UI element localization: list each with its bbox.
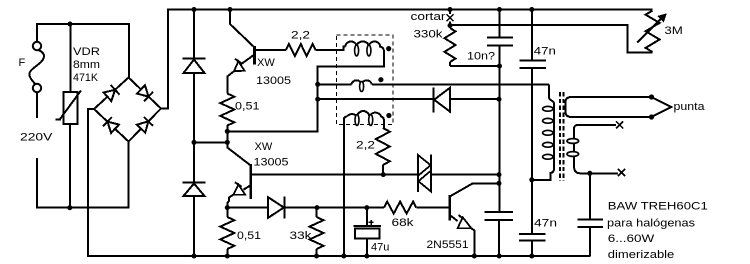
capacitor 47n upper: [531, 10, 533, 60]
wire D7 to 33k: [285, 207, 318, 209]
svg-text:0,51: 0,51: [235, 101, 260, 113]
junction Q2emitter-wire: [225, 205, 230, 210]
junction D8-node: [497, 97, 502, 102]
diode D6: [183, 182, 206, 184]
wire bridge plus: [161, 10, 169, 109]
svg-text:F: F: [19, 57, 26, 69]
terminal x1: [616, 121, 623, 128]
diode D5: [183, 58, 206, 60]
diode bridge D2: [137, 85, 149, 96]
capacitor C-499: [485, 211, 513, 213]
junction 47u-rail: [364, 254, 369, 259]
wire W1 return: [318, 51, 384, 132]
svg-text:330k: 330k: [414, 28, 444, 40]
winding W2: [351, 80, 371, 84]
svg-text:33k: 33k: [290, 230, 313, 242]
diode D8: [433, 88, 435, 113]
svg-text:47n: 47n: [534, 45, 556, 57]
T2 secondary hairpin to punta: [566, 97, 652, 117]
junction W3-rail: [341, 254, 346, 259]
diode bridge D3: [108, 122, 120, 133]
junction diac-node: [497, 172, 502, 177]
junction 47n1-rail: [529, 7, 534, 12]
junction AC1-VDR: [68, 22, 73, 27]
resistor 2,2 lower: [383, 121, 385, 128]
wire Q2 collector: [227, 148, 250, 166]
resistor 68k: [367, 207, 384, 209]
junction sec-cap: [587, 171, 592, 176]
junction midpoint-1: [225, 129, 230, 134]
T2 secondary tap wire: [574, 125, 616, 129]
junction cortar-rail: [448, 7, 453, 12]
wire cortar stub: [449, 10, 451, 15]
T2 secondary winding: [573, 129, 575, 166]
svg-text:BAW TREH60C1: BAW TREH60C1: [608, 200, 708, 212]
wire string-to-midpoint: [193, 141, 228, 143]
svg-text:13005: 13005: [254, 157, 289, 169]
varistor VDR: [70, 25, 72, 92]
wire W2 to T2 primary: [372, 83, 549, 85]
wire Q3 collector: [450, 183, 499, 196]
wire 220V return: [37, 158, 129, 208]
winding W1: [345, 41, 384, 52]
junction C499-rail: [497, 254, 502, 259]
wire 0,51 to midpoint: [226, 125, 228, 132]
diode D7: [268, 197, 284, 218]
junction 330k-10n: [497, 64, 502, 69]
bridge arm top-left: [94, 78, 129, 110]
junction 2,2-diac wire: [381, 172, 386, 177]
wire bridge bottom lead: [128, 141, 130, 209]
junction Q1 collector rail: [228, 7, 233, 12]
svg-text:13005: 13005: [256, 75, 291, 87]
junction 0,51-rail: [225, 254, 230, 259]
T2 primary winding: [553, 104, 555, 168]
svg-text:0,51: 0,51: [237, 230, 261, 242]
resistor 0,51 lower: [220, 217, 234, 249]
junction bus tap: [315, 97, 320, 102]
svg-text:2,2: 2,2: [356, 140, 375, 152]
wire bridge minus: [88, 109, 94, 256]
svg-text:8mm: 8mm: [73, 59, 100, 71]
svg-text:XW: XW: [257, 57, 275, 69]
svg-text:XW: XW: [255, 141, 273, 153]
wire node bus to D8: [318, 98, 434, 100]
T2 primary bottom lead: [532, 168, 554, 180]
potentiometer 3M: [646, 11, 660, 53]
junction W2 tap: [315, 82, 320, 87]
transistor Q2 body: [249, 164, 252, 199]
wire emitter node to D7: [227, 207, 267, 209]
wire diode-string: [193, 10, 195, 257]
wire Q1 collector: [230, 10, 255, 48]
junction string-midtap: [192, 140, 197, 145]
junction 33k top: [315, 205, 320, 210]
wire 2,2 to winding W1: [316, 47, 346, 51]
transistor Q1 emitter with diode: [241, 55, 255, 65]
svg-text:68k: 68k: [392, 217, 415, 229]
transistor Q1 body: [253, 46, 256, 65]
svg-text:471K: 471K: [73, 72, 99, 84]
capacitor 47n lower: [531, 180, 533, 233]
junction string-toprail: [192, 7, 197, 12]
wire DC+ top rail: [167, 9, 653, 11]
transistor Q3 body: [448, 195, 451, 221]
winding W3 left lead: [344, 117, 347, 257]
transformer T1 dashed box: [337, 35, 394, 125]
svg-text:punta: punta: [674, 101, 706, 113]
junction Q3C-node: [497, 181, 502, 186]
wire AC1 top-left: [36, 23, 130, 25]
fuse F: [36, 23, 38, 42]
diac DB3: [417, 155, 419, 193]
junction VDR-return: [67, 205, 72, 210]
terminal x2: [618, 169, 625, 176]
svg-text:VDR: VDR: [73, 46, 100, 58]
svg-text:para halógenas: para halógenas: [607, 218, 696, 230]
svg-text:220V: 220V: [20, 132, 53, 144]
wire DC- bottom rail: [87, 255, 590, 257]
resistor 2,2 upper: [286, 44, 316, 56]
resistor 33k: [310, 217, 324, 249]
svg-text:47n: 47n: [534, 218, 557, 230]
junction cortar-node: [448, 23, 453, 28]
junction midpoint-2: [225, 140, 230, 145]
transistor Q2 emitter with diode: [244, 185, 251, 190]
wire bridge top lead: [128, 23, 130, 78]
svg-text:cortar: cortar: [411, 11, 446, 23]
cut mark cortar: [447, 14, 454, 21]
diode bridge D1: [104, 90, 116, 101]
T2 secondary bottom lead: [574, 166, 618, 173]
winding W2 lead: [318, 83, 352, 85]
svg-text:2,2: 2,2: [291, 29, 310, 41]
wire midpoint drop: [226, 131, 228, 148]
wire Q2 base: [251, 174, 384, 176]
diode bridge D4: [137, 121, 148, 132]
junction punta top: [649, 94, 654, 99]
wire 2,2 to diac: [383, 174, 417, 176]
junction Q3E-rail: [472, 254, 477, 259]
junction 10n-rail: [497, 7, 502, 12]
bridge arm top-right: [129, 78, 162, 109]
polarity dot W1: [386, 46, 391, 51]
wire midpoint bus: [226, 130, 318, 132]
wire node 499 mid: [499, 66, 501, 211]
capacitor 47u electrolytic: [366, 208, 368, 225]
wire 330k to node: [450, 65, 500, 67]
junction 47n2-rail: [529, 254, 534, 259]
junction string-bottomrail: [192, 254, 197, 259]
svg-text:10n?: 10n?: [467, 51, 495, 63]
svg-text:3M: 3M: [664, 25, 683, 37]
svg-text:2N5551: 2N5551: [427, 239, 469, 251]
wire diac to node: [431, 174, 499, 176]
junction punta bottom: [649, 114, 654, 119]
bridge arm bottom-left: [94, 109, 129, 142]
polarity dot W3: [386, 113, 391, 118]
wire Q1 base: [255, 49, 287, 51]
T2 core: [559, 92, 561, 181]
wire cortar to 3M: [450, 25, 652, 52]
polarity dot W2: [378, 77, 383, 82]
winding W3: [347, 111, 384, 121]
capacitor 10n?: [499, 10, 501, 37]
junction T2ret-node: [529, 177, 534, 182]
svg-text:47u: 47u: [371, 241, 389, 253]
T2 primary top lead: [549, 84, 554, 104]
resistor 330k: [449, 26, 451, 29]
svg-text:dimerizable: dimerizable: [608, 249, 675, 261]
junction 33k-rail: [314, 254, 319, 259]
bridge arm bottom-right: [129, 109, 162, 142]
resistor 0,51 upper: [220, 94, 234, 126]
junction 47u top: [364, 205, 369, 210]
capacitor C-589: [589, 173, 591, 218]
svg-text:6...60W: 6...60W: [608, 233, 655, 245]
wire 33k to 47u: [317, 207, 367, 209]
transistor Q3 emitter with diode: [450, 215, 458, 221]
